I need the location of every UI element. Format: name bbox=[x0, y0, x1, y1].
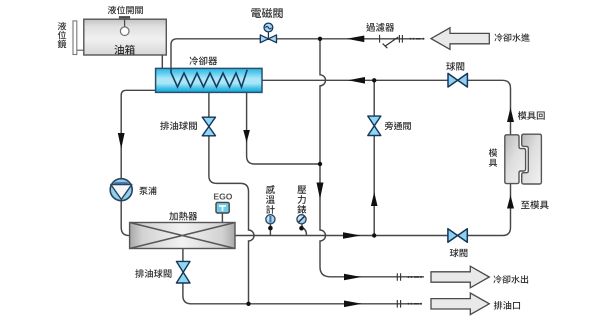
svg-text:EGO: EGO bbox=[213, 192, 232, 202]
